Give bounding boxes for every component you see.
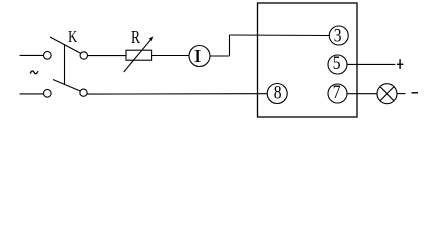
node: top source terminal [43,51,51,59]
wire: terminal 5 to plus [347,63,395,65]
plus label horizontal [397,63,403,65]
wire: switch to terminal 8 [87,93,267,95]
switch K top blade [50,37,81,54]
svg-text:R: R [131,28,140,47]
svg-text:7: 7 [333,81,341,102]
svg-text:K: K [68,28,77,46]
wire: terminal 7 to lamp [347,93,377,95]
terminal 3 [329,26,348,45]
wire: vertical riser [229,35,231,56]
resistor R arrow [124,38,152,72]
terminal 7 [328,84,347,103]
switch K linkage [64,45,66,85]
svg-text:8: 8 [274,82,282,103]
AC source symbol ~ [30,71,38,74]
component box [258,3,358,117]
switch K bottom blade [53,80,80,92]
wire: lamp to minus [397,93,406,95]
resistor R arrowhead [149,36,154,41]
wire: resistor to ammeter [152,55,189,57]
ammeter body [189,46,210,67]
svg-text:I: I [193,46,201,66]
terminal 5 [328,55,347,74]
terminal 8 [267,84,287,104]
wire: top source lead [20,54,44,56]
switch K top right contact [80,52,87,59]
wire: switch to resistor [88,55,127,57]
svg-text:5: 5 [333,53,341,74]
lamp cross stroke 1 [380,87,394,101]
node: bottom source terminal [43,89,51,97]
wire: into terminal 3 [230,34,330,37]
wire: bottom source lead [20,93,44,95]
switch K bottom right contact [80,89,87,96]
resistor R body [126,50,152,60]
svg-text:3: 3 [334,25,342,46]
lamp cross stroke 2 [380,87,394,101]
lamp body [377,84,397,104]
plus label vertical [399,59,401,69]
minus label [412,92,419,94]
wire: ammeter to corner [210,55,230,57]
